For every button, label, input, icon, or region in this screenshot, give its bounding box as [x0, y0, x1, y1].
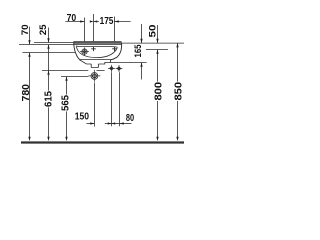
fixing bolt left extension vertical — [111, 72, 113, 126]
tap hole — [82, 49, 87, 54]
780 dimension vertical — [29, 53, 31, 138]
apron bottom line (165 level) — [111, 62, 147, 64]
basin rim back top edge — [74, 41, 122, 43]
right row1 (rim top ext / 850 level) — [122, 42, 184, 44]
565 level line — [61, 76, 88, 78]
svg-text:25: 25 — [38, 24, 48, 35]
waste extension vertical — [94, 83, 96, 127]
615 level arrow on chained vertical — [47, 71, 49, 75]
bowl inner bottom — [76, 47, 117, 58]
blob arrows at left fixing ext — [90, 20, 97, 22]
svg-text:150: 150 — [75, 112, 90, 123]
svg-text:565: 565 — [60, 95, 71, 111]
basin left outer edge — [74, 42, 80, 60]
svg-text:70: 70 — [67, 13, 77, 24]
svg-text:50: 50 — [148, 25, 158, 38]
850 dimension vertical — [177, 43, 179, 137]
dim 25 upper arrow line — [48, 28, 50, 43]
dim 175 right arrow — [115, 20, 119, 22]
top extension line left fixing — [93, 14, 95, 42]
dim 50 upper arrow line — [157, 25, 159, 43]
label 615 background — [44, 91, 52, 108]
dim 80 arrow — [120, 122, 124, 124]
left row A (rim top ext) — [34, 42, 74, 44]
dim 25 lower arrow / 615 chained vertical — [48, 45, 50, 138]
basin right outer edge — [111, 43, 122, 60]
dim 175 line — [94, 21, 115, 23]
basin rim front top edge (bold) — [74, 42, 122, 44]
top extension line tap hole — [84, 18, 86, 42]
svg-text:780: 780 — [21, 84, 32, 102]
dim 150 tail — [87, 123, 95, 125]
dim 150/80 middle line — [105, 123, 120, 125]
label 565 background — [61, 95, 69, 112]
fixing bolt left — [108, 65, 115, 72]
bowl top edge — [76, 46, 118, 47]
dim 70 top arrow — [80, 20, 84, 22]
top extension line right fixing — [114, 17, 116, 42]
dim 165 lower arrow line — [141, 63, 143, 80]
svg-text:850: 850 — [173, 82, 184, 101]
label 175 background — [99, 16, 114, 24]
dim 70 top tail — [65, 21, 84, 23]
svg-text:615: 615 — [44, 91, 55, 107]
fixing bolt right — [116, 65, 123, 72]
basin bottom edge — [79, 59, 110, 61]
label 850 background — [174, 82, 182, 101]
ground line — [21, 141, 184, 143]
565 dimension vertical — [66, 77, 68, 138]
svg-text:175: 175 — [100, 16, 114, 27]
svg-text:80: 80 — [126, 113, 135, 124]
fixing bolt right extension vertical — [119, 72, 121, 126]
left row C (780 level) — [23, 52, 76, 54]
dim 70 left upper arrow line — [29, 27, 31, 45]
dim 165 upper arrow line — [141, 24, 143, 43]
trap cup — [91, 64, 98, 68]
dim 80 right tail — [120, 123, 132, 125]
svg-text:70: 70 — [20, 24, 30, 35]
left fixing hole cross — [91, 47, 96, 52]
dim 150 arrow — [90, 122, 94, 124]
blob arrows at 150/80 boundary — [108, 122, 115, 124]
trap left slant — [79, 60, 91, 64]
right fixing hole cross — [112, 47, 117, 52]
800 dimension vertical — [157, 50, 159, 138]
615 ground arrow — [47, 137, 49, 141]
svg-text:800: 800 — [153, 82, 164, 101]
label 800 background — [154, 82, 162, 101]
waste outlet symbol — [91, 73, 98, 80]
left row B (bead ext) — [19, 44, 74, 46]
right row2 (800 / fixing level) — [146, 49, 168, 51]
dim 175 right tail — [115, 21, 131, 23]
trap right steps — [98, 60, 110, 64]
615 level line — [42, 70, 105, 72]
basin rim bead bottom — [74, 44, 121, 46]
svg-text:165: 165 — [133, 45, 143, 58]
